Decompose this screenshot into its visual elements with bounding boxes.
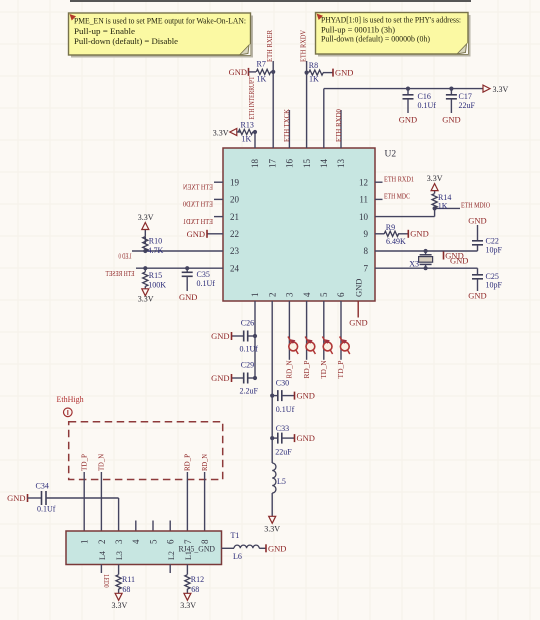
svg-text:Pull-down (default) = 00000b (: Pull-down (default) = 00000b (0h) <box>321 35 430 44</box>
svg-text:LED 0: LED 0 <box>118 252 131 261</box>
wire pin24 <box>136 267 223 269</box>
resistor R8 <box>305 71 309 75</box>
svg-text:C16: C16 <box>418 92 431 101</box>
svg-text:TD_P: TD_P <box>336 361 345 379</box>
wire pin16 <box>288 110 290 148</box>
svg-text:1: 1 <box>250 293 260 298</box>
svg-text:22uF: 22uF <box>459 101 476 110</box>
svg-text:R13: R13 <box>241 121 254 130</box>
svg-text:3.3V: 3.3V <box>493 85 509 94</box>
svg-text:0.1Uf: 0.1Uf <box>197 279 216 288</box>
wire pin17 <box>272 61 274 148</box>
svg-text:7: 7 <box>364 263 369 273</box>
wire pin20 <box>214 198 223 200</box>
svg-text:3.3V: 3.3V <box>213 128 229 137</box>
svg-text:5: 5 <box>148 539 158 544</box>
wire pin13 <box>340 110 342 148</box>
power port GND (C26) <box>231 332 233 340</box>
svg-text:GND: GND <box>297 433 315 443</box>
resistor R10 <box>143 249 147 253</box>
svg-text:3.3V: 3.3V <box>112 601 128 610</box>
svg-text:4.7K: 4.7K <box>148 246 164 255</box>
stub under L2 <box>169 565 171 574</box>
top edge line <box>70 0 471 2</box>
connector RJ45 body <box>66 531 222 565</box>
inductor L5 <box>272 463 276 493</box>
svg-text:R11: R11 <box>122 575 135 584</box>
resistor R15 <box>143 266 147 270</box>
capacitor C26 <box>253 334 257 338</box>
resistor R9 <box>375 233 384 235</box>
note PME_EN <box>71 16 253 58</box>
wire pin21 <box>214 216 223 218</box>
svg-text:GND: GND <box>353 279 363 297</box>
svg-text:GND: GND <box>211 373 229 383</box>
wire pin14 to 3.3V rail <box>323 89 325 148</box>
svg-text:PHYAD[1:0] is used to set the: PHYAD[1:0] is used to set the PHY's addr… <box>321 16 461 25</box>
svg-text:ETH RXDV: ETH RXDV <box>298 30 307 62</box>
svg-text:ETH TXEN: ETH TXEN <box>183 182 213 191</box>
power port GND (C29) <box>231 374 233 382</box>
svg-text:6: 6 <box>166 539 176 544</box>
svg-text:ETH TXD0: ETH TXD0 <box>183 200 213 209</box>
svg-text:20: 20 <box>230 195 240 205</box>
svg-text:3.3V: 3.3V <box>138 213 154 222</box>
svg-text:ETH INTERRUPT: ETH INTERRUPT <box>247 76 256 119</box>
crystal X3 <box>425 251 427 255</box>
inductor L6 <box>222 547 235 549</box>
svg-text:0.1Uf: 0.1Uf <box>37 505 56 514</box>
svg-text:3.3V: 3.3V <box>180 601 196 610</box>
svg-text:1K: 1K <box>242 135 252 144</box>
svg-text:GND: GND <box>349 318 367 328</box>
svg-text:L4: L4 <box>98 551 107 560</box>
wire pin6 <box>340 301 342 360</box>
power port GND (L6) <box>265 544 267 552</box>
wire pin15 <box>306 61 308 148</box>
svg-text:TD_N: TD_N <box>319 360 328 379</box>
svg-text:GND: GND <box>442 115 460 125</box>
svg-text:C17: C17 <box>459 92 472 101</box>
svg-text:C30: C30 <box>276 378 289 387</box>
svg-text:R14: R14 <box>438 193 451 202</box>
wire C34 to RJ45 pin3 <box>118 498 120 531</box>
svg-text:RD_P: RD_P <box>302 361 311 379</box>
svg-text:GND: GND <box>229 67 247 77</box>
power port 3.3V (R13) <box>230 129 237 136</box>
svg-text:68: 68 <box>122 585 130 594</box>
blanket dashed box <box>69 422 223 480</box>
wire pin2 <box>271 301 273 463</box>
wire pin1 <box>254 301 256 378</box>
svg-text:100K: 100K <box>148 281 166 290</box>
RJ45 pin5 stub <box>152 521 154 532</box>
svg-text:RD_P: RD_P <box>183 454 192 471</box>
resistor R11 <box>118 565 120 575</box>
capacitor C30 <box>270 394 274 398</box>
GND pin stub <box>357 301 359 318</box>
svg-text:U2: U2 <box>385 150 397 160</box>
svg-text:R12: R12 <box>191 575 204 584</box>
resistor R13 <box>238 131 241 133</box>
diff pair marker RD_N <box>288 337 298 355</box>
RJ45 pin4 stub <box>135 521 137 532</box>
capacitor C33 <box>270 436 274 440</box>
capacitor C35 <box>185 266 189 270</box>
svg-text:8: 8 <box>364 246 369 256</box>
svg-text:GND: GND <box>450 255 468 265</box>
svg-text:R8: R8 <box>309 61 318 70</box>
resistor R7 <box>249 71 257 73</box>
svg-text:GND: GND <box>468 290 486 300</box>
capacitor C16 <box>406 87 410 91</box>
wire pin7 <box>375 267 478 269</box>
diff pair marker TD_N <box>322 337 332 355</box>
power port GND (C33) <box>294 434 296 442</box>
svg-text:0.1Uf: 0.1Uf <box>418 101 437 110</box>
svg-text:ETH RXER: ETH RXER <box>265 30 274 62</box>
svg-text:2.2uF: 2.2uF <box>240 386 259 395</box>
svg-text:ETH MDC: ETH MDC <box>384 192 410 201</box>
power port GND (C34) <box>27 494 29 502</box>
capacitor C22 <box>477 225 479 241</box>
svg-text:24: 24 <box>230 263 240 273</box>
svg-text:9: 9 <box>364 229 369 239</box>
LED0 stub <box>100 565 102 574</box>
svg-text:ETH MDIO: ETH MDIO <box>461 201 490 210</box>
wire TD_P <box>83 472 85 531</box>
svg-text:15: 15 <box>302 159 312 169</box>
svg-text:ETH RXD0: ETH RXD0 <box>334 109 343 142</box>
power port GND (R9) <box>407 230 409 238</box>
svg-text:6: 6 <box>336 292 346 297</box>
wire RD_N <box>204 472 206 531</box>
svg-text:21: 21 <box>230 212 239 222</box>
svg-text:GND: GND <box>7 493 25 503</box>
svg-text:1K: 1K <box>438 202 448 211</box>
wire pin3 <box>288 301 290 360</box>
svg-text:GND: GND <box>187 229 205 239</box>
svg-text:C26: C26 <box>241 319 254 328</box>
wire RD_P <box>186 472 188 531</box>
power port GND (R8) <box>332 69 334 77</box>
svg-text:R7: R7 <box>257 60 266 69</box>
svg-text:GND: GND <box>179 292 197 302</box>
svg-text:Pull-down (default) = Disable: Pull-down (default) = Disable <box>74 37 178 46</box>
power port GND (pin22) <box>207 233 223 235</box>
svg-text:C29: C29 <box>241 361 254 370</box>
svg-text:L5: L5 <box>277 477 286 486</box>
svg-text:19: 19 <box>230 177 240 187</box>
wire pin11 <box>375 198 383 200</box>
power port 3.3V down (R12) <box>184 593 191 600</box>
svg-text:5: 5 <box>319 292 329 297</box>
svg-text:TD_P: TD_P <box>79 454 88 471</box>
svg-text:10: 10 <box>359 212 369 222</box>
power port 3.3V down (R11) <box>115 593 122 600</box>
svg-text:0.1Uf: 0.1Uf <box>240 344 259 353</box>
resistor R14 <box>432 194 437 208</box>
wire pin18 <box>254 132 256 148</box>
power port 3.3V (R10) <box>144 230 146 237</box>
svg-text:1: 1 <box>80 540 90 545</box>
power port 3.3V (rail) <box>483 85 490 92</box>
power port GND (R7) <box>248 68 250 76</box>
wire pin19 <box>214 181 223 183</box>
wire pin5 <box>323 301 325 360</box>
svg-text:22: 22 <box>230 229 239 239</box>
svg-text:22uF: 22uF <box>275 448 292 457</box>
RJ45 pin numbers <box>80 539 210 560</box>
svg-text:GND: GND <box>268 543 286 553</box>
power port 3.3V down (R15) <box>144 286 146 289</box>
diff pair marker TD_P <box>340 337 350 355</box>
svg-text:4: 4 <box>302 292 312 297</box>
svg-text:C25: C25 <box>486 272 499 281</box>
svg-text:EthHigh: EthHigh <box>57 395 84 404</box>
svg-text:GND: GND <box>297 391 315 401</box>
svg-text:RD_N: RD_N <box>200 454 209 471</box>
power port GND (X3) <box>443 252 445 260</box>
svg-text:3: 3 <box>114 539 124 544</box>
power port 3.3V (R14) <box>434 190 436 193</box>
svg-text:12: 12 <box>359 177 368 187</box>
power port GND (C30) <box>294 392 296 400</box>
svg-text:3.3V: 3.3V <box>264 525 280 534</box>
svg-text:68: 68 <box>191 585 199 594</box>
wire pin10 <box>375 216 435 218</box>
svg-text:18: 18 <box>250 159 260 169</box>
svg-text:C34: C34 <box>36 481 49 490</box>
svg-text:LED0: LED0 <box>102 575 110 588</box>
wire pin23 <box>132 250 223 252</box>
diff pair marker RD_P <box>305 337 315 355</box>
EthHigh circle icon <box>64 408 73 417</box>
svg-text:2: 2 <box>267 293 277 298</box>
wire TD_N <box>100 472 102 531</box>
svg-text:ETH TXCK: ETH TXCK <box>282 108 291 142</box>
wire pin8 <box>375 250 478 252</box>
capacitor C34 <box>28 497 42 499</box>
svg-text:6.49K: 6.49K <box>386 237 406 246</box>
svg-text:RD_N: RD_N <box>285 360 294 379</box>
svg-text:10pF: 10pF <box>486 245 503 254</box>
svg-text:Pull-up = 00011b (3h): Pull-up = 00011b (3h) <box>321 25 395 34</box>
svg-text:X3: X3 <box>409 260 419 269</box>
resistor R12 <box>186 565 188 575</box>
svg-text:L3: L3 <box>115 551 124 560</box>
note PHYAD <box>318 15 471 57</box>
svg-text:14: 14 <box>319 159 329 169</box>
svg-text:GND: GND <box>410 229 428 239</box>
svg-text:GND: GND <box>468 215 486 225</box>
svg-text:23: 23 <box>230 246 240 256</box>
svg-text:1K: 1K <box>257 75 267 84</box>
capacitor C29 <box>253 376 257 380</box>
capacitor C25 <box>477 268 479 275</box>
svg-text:17: 17 <box>267 159 277 169</box>
svg-text:10pF: 10pF <box>486 281 503 290</box>
svg-text:GND: GND <box>335 68 353 78</box>
U2 pin numbers <box>230 159 369 298</box>
wire L5 to 3.3V <box>271 493 273 517</box>
svg-text:T1: T1 <box>231 531 240 540</box>
svg-text:GND: GND <box>211 331 229 341</box>
svg-text:13: 13 <box>336 159 346 169</box>
svg-text:1K: 1K <box>309 75 319 84</box>
svg-text:3.3V: 3.3V <box>427 174 443 183</box>
svg-text:4: 4 <box>131 539 141 544</box>
svg-text:0.1Uf: 0.1Uf <box>276 405 295 414</box>
op-amp U2 body <box>223 148 375 301</box>
svg-text:Pull-up = Enable: Pull-up = Enable <box>74 27 135 36</box>
wire pin12 <box>375 181 383 183</box>
svg-text:ETH RXD1: ETH RXD1 <box>384 174 414 183</box>
svg-text:ETH RESET: ETH RESET <box>105 269 134 278</box>
svg-text:L2: L2 <box>167 551 176 560</box>
svg-text:C35: C35 <box>197 270 210 279</box>
svg-text:C33: C33 <box>276 424 289 433</box>
svg-text:3: 3 <box>285 292 295 297</box>
svg-text:ETH TXD1: ETH TXD1 <box>183 217 213 226</box>
svg-text:C22: C22 <box>486 236 499 245</box>
svg-text:TD_N: TD_N <box>97 453 106 471</box>
svg-text:RJ45_GND: RJ45_GND <box>179 543 216 553</box>
capacitor C17 <box>449 87 453 91</box>
svg-text:PME_EN is used to set PME outp: PME_EN is used to set PME output for Wak… <box>74 17 246 26</box>
RJ45 pin6 stub <box>169 521 171 532</box>
svg-text:R9: R9 <box>386 223 395 232</box>
power port 3.3V down (pin2) <box>269 516 276 523</box>
svg-text:11: 11 <box>359 195 368 205</box>
svg-text:3.3V: 3.3V <box>138 294 154 303</box>
svg-text:16: 16 <box>285 159 295 169</box>
svg-text:GND: GND <box>399 115 417 125</box>
svg-text:L6: L6 <box>233 552 242 561</box>
svg-text:2: 2 <box>97 540 107 545</box>
svg-text:R15: R15 <box>149 271 162 280</box>
svg-text:R10: R10 <box>149 237 162 246</box>
wire pin4 <box>306 301 308 360</box>
